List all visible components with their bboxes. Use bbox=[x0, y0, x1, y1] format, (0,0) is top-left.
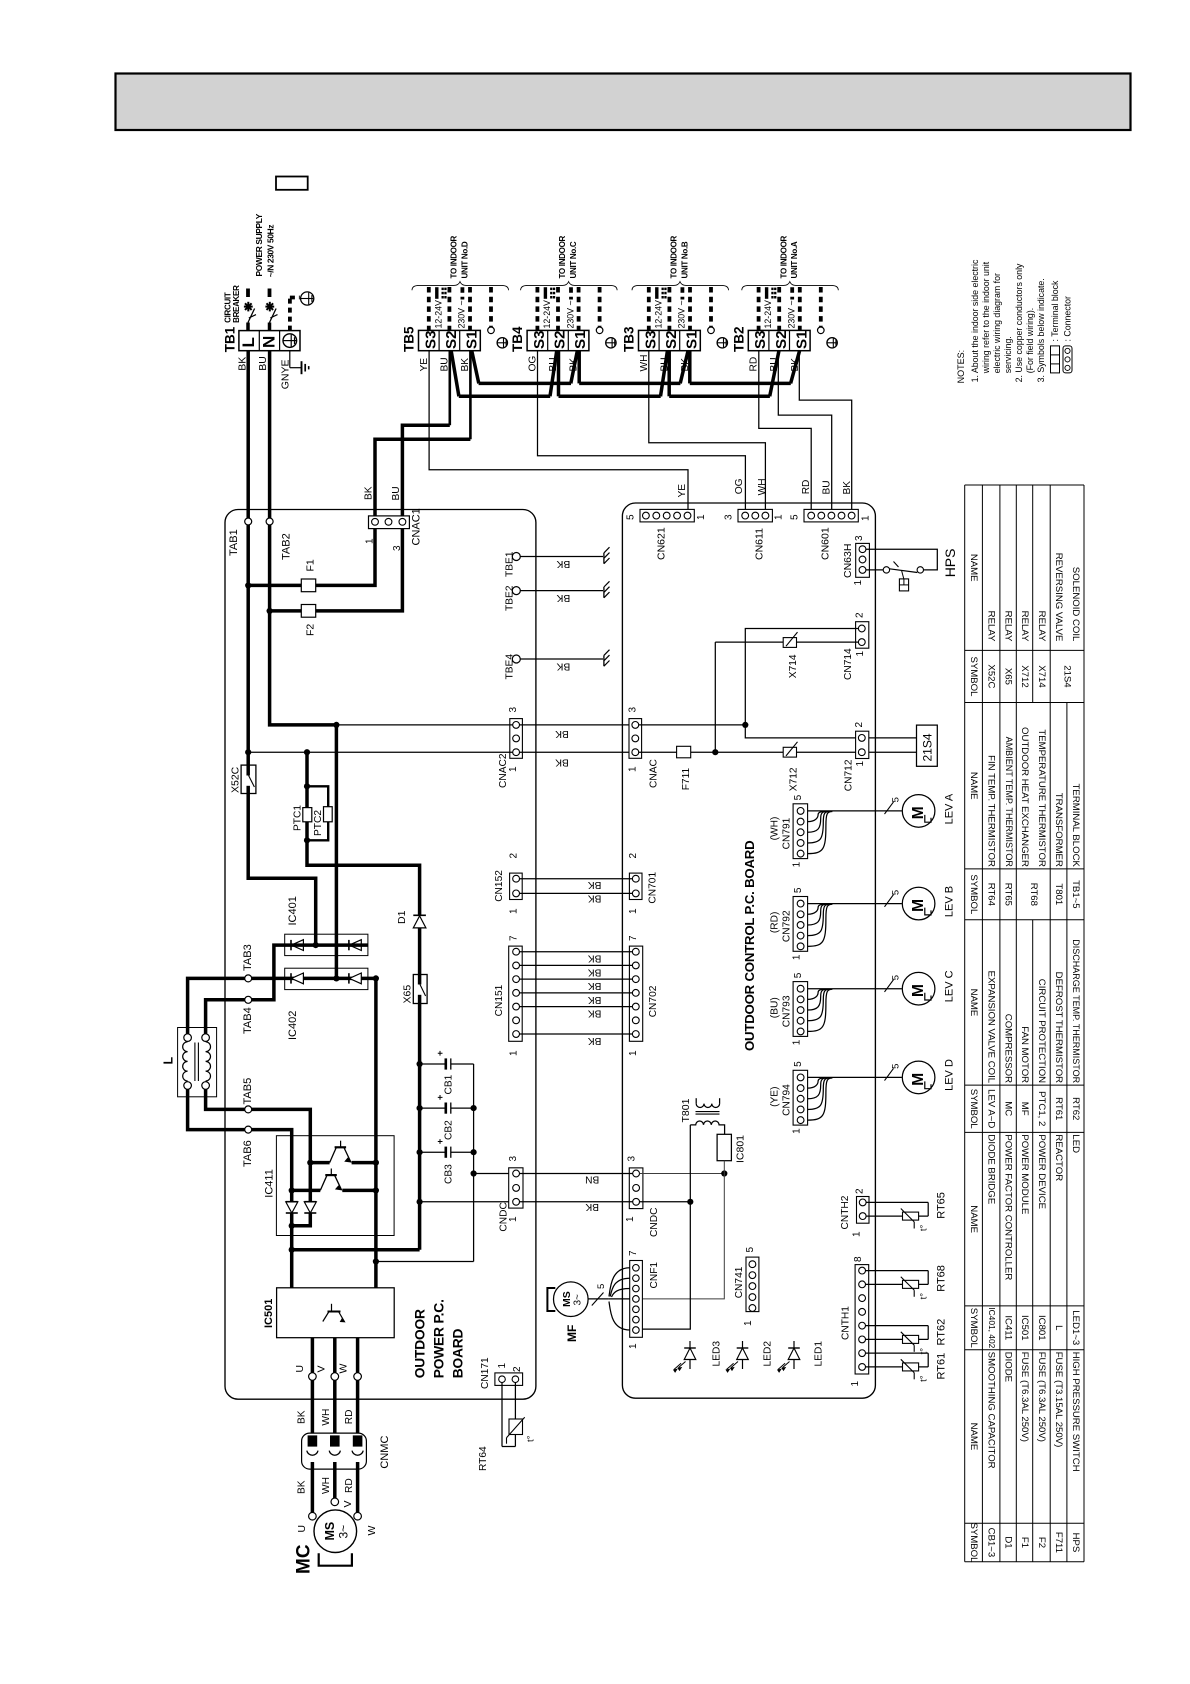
wire CN151-CN702 bbox=[520, 1006, 633, 1008]
svg-text:CN151: CN151 bbox=[494, 984, 505, 1016]
svg-text:BK: BK bbox=[556, 592, 570, 603]
svg-text:SYMBOL: SYMBOL bbox=[968, 1308, 979, 1349]
svg-text:7: 7 bbox=[628, 935, 639, 941]
svg-text:t°: t° bbox=[919, 1375, 930, 1382]
diode D1 bbox=[413, 916, 426, 928]
svg-text:POWER MODULE: POWER MODULE bbox=[1019, 1134, 1030, 1214]
wire to 21S4 bbox=[869, 737, 917, 739]
wire BU TB2.S2 to CN601 bbox=[778, 351, 831, 513]
wire YE TB5.S3 to CN621 bbox=[429, 351, 688, 513]
svg-text:S2: S2 bbox=[443, 330, 460, 349]
svg-text:FUSE (T6.3AL 250V): FUSE (T6.3AL 250V) bbox=[1036, 1352, 1047, 1442]
wire CNDC.1 net bbox=[640, 1201, 691, 1203]
svg-text:LED2: LED2 bbox=[763, 1341, 774, 1367]
svg-text:5: 5 bbox=[891, 975, 902, 980]
svg-text:NOTES:: NOTES: bbox=[956, 350, 966, 384]
TB2 brace bbox=[742, 282, 839, 291]
connector CN794 bbox=[793, 1070, 808, 1125]
connector CN611 bbox=[738, 509, 772, 522]
wire CN151-CN702 bbox=[520, 951, 633, 953]
TB3 12-24V pair mark bbox=[655, 287, 658, 299]
svg-text:LED3: LED3 bbox=[712, 1341, 723, 1367]
svg-text:S2: S2 bbox=[552, 330, 569, 349]
TB5 dashed field wiring bbox=[427, 287, 431, 330]
svg-text:POWER DEVICE: POWER DEVICE bbox=[1036, 1134, 1047, 1209]
svg-text:BK: BK bbox=[588, 879, 602, 890]
svg-text:UNIT No.D: UNIT No.D bbox=[460, 241, 469, 278]
svg-text:3: 3 bbox=[508, 707, 519, 713]
svg-text:1: 1 bbox=[774, 514, 785, 520]
svg-text:TO INDOOR: TO INDOOR bbox=[670, 235, 679, 278]
terminal U bbox=[309, 1373, 317, 1381]
MF 5-core slash bbox=[592, 1293, 604, 1306]
svg-text:2: 2 bbox=[628, 853, 639, 859]
TB5 brace bbox=[412, 282, 509, 291]
IC411 diode A bbox=[286, 1201, 298, 1203]
connector CN152 bbox=[510, 873, 523, 899]
svg-text:TO INDOOR: TO INDOOR bbox=[450, 235, 459, 278]
svg-text:CNDC: CNDC bbox=[499, 1202, 510, 1231]
wire W phase bbox=[356, 1338, 360, 1445]
svg-text:CN152: CN152 bbox=[494, 870, 505, 902]
svg-text:NAME: NAME bbox=[968, 1423, 979, 1451]
CN794 5-core slash bbox=[885, 1068, 894, 1080]
TB4 brace bbox=[521, 282, 618, 291]
junction bbox=[721, 1170, 727, 1176]
svg-text:SYMBOL: SYMBOL bbox=[968, 1089, 979, 1130]
wire V phase bbox=[333, 1338, 337, 1445]
PTC1 element bbox=[303, 808, 312, 822]
svg-text:230V ~: 230V ~ bbox=[677, 300, 687, 328]
svg-text:W: W bbox=[366, 1526, 378, 1536]
svg-text:1: 1 bbox=[855, 651, 866, 657]
junction bbox=[245, 749, 251, 755]
wire CN714.1 via X714 bbox=[715, 641, 858, 643]
svg-text:OUTDOOR: OUTDOOR bbox=[413, 1309, 428, 1378]
junction bbox=[313, 942, 319, 948]
TB5 12-24V pair mark bbox=[435, 287, 438, 299]
svg-text:CN702: CN702 bbox=[648, 985, 659, 1017]
svg-text:5: 5 bbox=[745, 1247, 756, 1253]
svg-text:BOARD: BOARD bbox=[451, 1328, 466, 1378]
wire CNAC1.3 to fuse F2 bbox=[270, 529, 403, 611]
terminal V bbox=[331, 1373, 339, 1381]
wire TAB5 row bbox=[206, 1089, 311, 1162]
power module IC501 bbox=[277, 1288, 395, 1338]
svg-text:5: 5 bbox=[626, 514, 637, 520]
svg-text:F711: F711 bbox=[1053, 1532, 1064, 1553]
wire CN714.2 bbox=[745, 629, 858, 738]
svg-text:RELAY: RELAY bbox=[1003, 611, 1014, 642]
svg-text:230V ~: 230V ~ bbox=[457, 300, 467, 328]
svg-text:S1: S1 bbox=[684, 330, 701, 349]
svg-text:RT68: RT68 bbox=[936, 1265, 948, 1292]
light emitting diode LED2 bbox=[742, 1341, 744, 1369]
svg-text:SYMBOL: SYMBOL bbox=[968, 656, 979, 697]
svg-text:BU: BU bbox=[257, 356, 269, 371]
expansion valve motor LEV D bbox=[902, 1061, 935, 1094]
svg-text:CN712: CN712 bbox=[844, 759, 855, 791]
wire S2 chain TB4-TB3 bbox=[559, 395, 661, 399]
svg-text:CNF1: CNF1 bbox=[649, 1262, 660, 1289]
thermistor RT61 bbox=[866, 1352, 929, 1354]
svg-text:IC411: IC411 bbox=[1003, 1315, 1014, 1340]
terminal block symbol bbox=[1051, 346, 1060, 373]
TB2 S1 drop bbox=[791, 351, 800, 383]
svg-text:5: 5 bbox=[793, 972, 804, 978]
svg-text:(RD): (RD) bbox=[770, 912, 781, 934]
svg-text:(For field wiring).: (For field wiring). bbox=[1025, 308, 1035, 374]
relay X712 contact bbox=[783, 747, 796, 757]
wire S1 chain TB5-TB4 bbox=[479, 382, 571, 386]
svg-text:5: 5 bbox=[793, 887, 804, 893]
svg-text:IC401, 402: IC401, 402 bbox=[987, 1307, 997, 1348]
svg-text:TB3: TB3 bbox=[622, 326, 637, 352]
legend box bbox=[276, 177, 308, 190]
light emitting diode LED3 bbox=[689, 1341, 691, 1369]
wire S1 chain TB4-TB3 bbox=[579, 382, 680, 386]
svg-text:REACTOR: REACTOR bbox=[1053, 1134, 1064, 1181]
svg-text:1: 1 bbox=[625, 1216, 636, 1222]
svg-text:N: N bbox=[260, 336, 279, 348]
svg-text:OUTDOOR HEAT EXCHANGER: OUTDOOR HEAT EXCHANGER bbox=[1019, 727, 1030, 867]
svg-text:TBE4: TBE4 bbox=[505, 654, 516, 680]
wire Q1 leg bbox=[309, 1163, 313, 1202]
wire N trunk bbox=[268, 351, 272, 611]
svg-text:3~: 3~ bbox=[337, 1525, 351, 1539]
svg-text:IC401: IC401 bbox=[287, 896, 299, 925]
svg-text:U: U bbox=[294, 1365, 306, 1373]
TBE1 chassis ground bbox=[603, 553, 605, 564]
wire PTC to D1 trunk bbox=[307, 840, 420, 915]
svg-text:BK: BK bbox=[588, 1035, 602, 1046]
svg-text:+: + bbox=[435, 1138, 446, 1144]
CN791 harness bbox=[808, 810, 902, 812]
svg-text:L: L bbox=[239, 337, 258, 347]
TB3 earth symbol bbox=[717, 338, 727, 348]
svg-text:UNIT No.C: UNIT No.C bbox=[569, 241, 578, 278]
svg-text:3: 3 bbox=[854, 535, 865, 541]
terminal W bbox=[354, 1373, 362, 1381]
outdoor power pc board outline bbox=[225, 510, 536, 1400]
IC501 transistor symbol bbox=[328, 1311, 341, 1313]
svg-text:RD: RD bbox=[344, 1478, 355, 1493]
svg-text:BK: BK bbox=[588, 1007, 602, 1018]
svg-text:1: 1 bbox=[497, 1363, 508, 1369]
svg-text:REVERSING VALVE: REVERSING VALVE bbox=[1053, 553, 1064, 642]
title bar bbox=[116, 74, 1131, 131]
svg-text:V: V bbox=[316, 1365, 328, 1372]
connector CN601 bbox=[804, 509, 858, 522]
svg-text:LEV C: LEV C bbox=[944, 970, 956, 1002]
svg-text:12-24V: 12-24V bbox=[542, 300, 552, 328]
wire U phase bbox=[311, 1338, 315, 1445]
svg-text:1. About the indoor side elect: 1. About the indoor side electric bbox=[970, 259, 980, 382]
TB3 S1 taps bbox=[680, 351, 688, 383]
svg-text:3: 3 bbox=[724, 514, 735, 520]
svg-text:W: W bbox=[338, 1364, 350, 1374]
svg-text:L: L bbox=[162, 1057, 176, 1065]
svg-text:PTC2: PTC2 bbox=[313, 810, 324, 836]
svg-text:2: 2 bbox=[512, 1366, 523, 1372]
svg-text:t°: t° bbox=[919, 1293, 930, 1300]
capacitor CB2 bbox=[417, 1105, 423, 1111]
svg-text:3. Symbols below indicate.: 3. Symbols below indicate. bbox=[1036, 278, 1046, 382]
svg-text:WH: WH bbox=[321, 1477, 332, 1494]
connector CN792 bbox=[793, 897, 808, 952]
MC bracket bbox=[319, 1553, 352, 1566]
svg-text:LED1~3: LED1~3 bbox=[1070, 1310, 1081, 1345]
svg-text:CNAC: CNAC bbox=[649, 759, 660, 788]
junction bbox=[742, 722, 748, 728]
reactor L bbox=[178, 1028, 217, 1097]
svg-text:RT61: RT61 bbox=[1053, 1097, 1064, 1120]
svg-text:UNIT No.A: UNIT No.A bbox=[790, 241, 799, 278]
wire CNAC1.1 to fuse F1 bbox=[248, 529, 375, 586]
svg-text:TERMINAL BLOCK: TERMINAL BLOCK bbox=[1070, 784, 1081, 868]
transistor Q2 bbox=[292, 1189, 321, 1193]
svg-text:RT62: RT62 bbox=[936, 1319, 948, 1346]
wire to CNF1.4 bbox=[639, 1174, 724, 1299]
transistor Q1 bbox=[310, 1161, 329, 1165]
svg-text:MC: MC bbox=[294, 1544, 315, 1574]
svg-text:BK: BK bbox=[588, 980, 602, 991]
svg-text:TO INDOOR: TO INDOOR bbox=[779, 235, 788, 278]
svg-text:21S4: 21S4 bbox=[1062, 665, 1073, 688]
relay X52C contact bbox=[246, 752, 250, 775]
svg-text:PTC1: PTC1 bbox=[293, 805, 304, 831]
outdoor control pc board outline bbox=[622, 503, 875, 1398]
diode bridge IC402 bbox=[285, 968, 368, 989]
svg-text:wiring refer to the indoor uni: wiring refer to the indoor unit bbox=[981, 261, 991, 374]
wire CN151-CN702 bbox=[520, 964, 633, 966]
svg-text:BK: BK bbox=[297, 1480, 308, 1494]
compressor motor MC bbox=[314, 1510, 357, 1553]
svg-text:1: 1 bbox=[855, 761, 866, 767]
svg-text:+: + bbox=[435, 1050, 446, 1056]
svg-text:IC801: IC801 bbox=[1036, 1315, 1047, 1341]
svg-text:S3: S3 bbox=[531, 330, 548, 349]
svg-text:CNTH2: CNTH2 bbox=[840, 1195, 851, 1229]
TB2 S2 drop bbox=[770, 351, 779, 396]
svg-text:DEFROST THERMISTOR: DEFROST THERMISTOR bbox=[1053, 972, 1064, 1083]
wire Q2 leg bbox=[290, 1190, 294, 1201]
light emitting diode LED1 bbox=[793, 1341, 795, 1369]
svg-text:RELAY: RELAY bbox=[986, 611, 997, 642]
wire between boards bbox=[520, 724, 632, 726]
svg-text:CN794: CN794 bbox=[782, 1084, 793, 1116]
connector CNAC2 bbox=[510, 719, 523, 759]
power device IC801 bbox=[717, 1134, 731, 1160]
connector CN791 bbox=[793, 804, 808, 859]
fuse F1 bbox=[301, 579, 315, 592]
svg-text:CN611: CN611 bbox=[754, 528, 766, 560]
junction bbox=[333, 975, 339, 981]
svg-text:SYMBOL: SYMBOL bbox=[968, 1522, 979, 1563]
svg-text:D1: D1 bbox=[396, 910, 408, 924]
svg-text:TAB5: TAB5 bbox=[242, 1078, 254, 1105]
svg-text:X712: X712 bbox=[1019, 665, 1030, 687]
wire TAB4 to IC401 bbox=[206, 945, 289, 1034]
svg-text:1: 1 bbox=[852, 1231, 863, 1237]
svg-text:MS: MS bbox=[561, 1291, 573, 1307]
terminal TBE1 bbox=[512, 553, 520, 561]
svg-text:DIODE BRIDGE: DIODE BRIDGE bbox=[986, 1134, 997, 1204]
svg-text:5: 5 bbox=[891, 797, 902, 802]
connector CNAC control side bbox=[629, 719, 642, 759]
svg-text:3: 3 bbox=[627, 1156, 638, 1162]
wire CB return bus bbox=[473, 1064, 475, 1262]
connector CNTH1 bbox=[855, 1265, 869, 1374]
svg-text:BK: BK bbox=[588, 892, 602, 903]
svg-text:CB3: CB3 bbox=[444, 1164, 455, 1184]
TB2 earth pigtail bbox=[818, 327, 825, 334]
wire BK trunk to CNAC2 bbox=[246, 585, 250, 752]
connector CN714 bbox=[856, 622, 869, 649]
svg-text:CNDC: CNDC bbox=[649, 1208, 660, 1237]
svg-text:TEMPERATURE THERMISTOR: TEMPERATURE THERMISTOR bbox=[1036, 729, 1047, 867]
thermistor RT68 bbox=[866, 1270, 929, 1272]
svg-text:t°: t° bbox=[919, 1224, 930, 1231]
svg-text:BU: BU bbox=[822, 480, 833, 494]
svg-text:TRANSFORMER: TRANSFORMER bbox=[1053, 793, 1064, 867]
svg-text:OUTDOOR CONTROL P.C. BOARD: OUTDOOR CONTROL P.C. BOARD bbox=[742, 841, 757, 1051]
svg-text:RD: RD bbox=[801, 480, 812, 495]
terminal TBE4 bbox=[512, 655, 520, 663]
svg-text:IC501: IC501 bbox=[263, 1299, 275, 1328]
fuse F711 bbox=[677, 746, 691, 758]
svg-text:F1: F1 bbox=[305, 559, 317, 571]
terminal TAB3 bbox=[245, 975, 252, 982]
svg-text:BK: BK bbox=[842, 481, 853, 495]
svg-text:FUSE (T6.3AL 250V): FUSE (T6.3AL 250V) bbox=[1019, 1352, 1030, 1442]
svg-text:YE: YE bbox=[419, 358, 430, 372]
svg-text:POWER FACTOR CONTROLLER: POWER FACTOR CONTROLLER bbox=[1003, 1134, 1014, 1280]
svg-text:12-24V: 12-24V bbox=[433, 300, 443, 328]
svg-text:RELAY: RELAY bbox=[1019, 611, 1030, 642]
CN794 harness bbox=[808, 1076, 902, 1078]
wire CNAC.3 bbox=[639, 724, 746, 726]
svg-text:BREAKER: BREAKER bbox=[232, 285, 241, 323]
CN791 5-core slash bbox=[885, 802, 894, 814]
PTC2 element bbox=[324, 807, 333, 822]
svg-text:CN601: CN601 bbox=[820, 527, 832, 560]
TB4 12-24V pair mark bbox=[544, 287, 547, 299]
wire TAB3 row bbox=[188, 978, 376, 1034]
component table bbox=[965, 1561, 1084, 1563]
thermistor RT64 bbox=[501, 1383, 503, 1447]
svg-text:CNAC2: CNAC2 bbox=[498, 753, 509, 788]
junction bbox=[267, 608, 273, 614]
wire CN152-CN701 bbox=[520, 878, 633, 880]
svg-text:12-24V: 12-24V bbox=[653, 300, 663, 328]
expansion valve motor LEV A bbox=[902, 795, 935, 828]
protective earth symbol bbox=[301, 292, 314, 305]
MF harness bbox=[588, 1298, 608, 1300]
svg-text:5: 5 bbox=[891, 890, 902, 895]
svg-text:AMBIENT TEMP. THERMISTOR: AMBIENT TEMP. THERMISTOR bbox=[1004, 737, 1014, 868]
svg-text:1: 1 bbox=[850, 1381, 861, 1387]
svg-text:LEV D: LEV D bbox=[944, 1059, 956, 1091]
wire BU CNAC1 to TB5.S2 bbox=[402, 425, 449, 522]
TB4 dashed field wiring bbox=[536, 287, 540, 330]
svg-text:F1: F1 bbox=[1019, 1537, 1030, 1548]
svg-text:T801: T801 bbox=[1053, 883, 1064, 905]
connector CN702 bbox=[629, 946, 642, 1041]
svg-text:L: L bbox=[1053, 1325, 1064, 1331]
svg-text:2: 2 bbox=[855, 612, 866, 618]
TB5 230V dash mark bbox=[460, 287, 464, 299]
TB4 S2 taps bbox=[550, 351, 557, 396]
connector CNTH2 bbox=[857, 1197, 870, 1224]
svg-text:X52C: X52C bbox=[986, 664, 997, 688]
svg-text:1: 1 bbox=[628, 766, 639, 772]
fuse F2 bbox=[301, 605, 315, 618]
svg-text:TAB1: TAB1 bbox=[228, 529, 240, 556]
svg-text:OG: OG bbox=[527, 356, 538, 372]
wire BK CNAC1 to TB5.S1 bbox=[375, 439, 470, 522]
connector CN171 bbox=[495, 1373, 523, 1386]
svg-text:CB1~3: CB1~3 bbox=[986, 1528, 997, 1558]
wire CNAC.1 via F711 X712 bbox=[639, 751, 859, 753]
svg-text:RD: RD bbox=[749, 357, 760, 372]
svg-text:FAN MOTOR: FAN MOTOR bbox=[1019, 1026, 1030, 1083]
terminal TAB1 bbox=[245, 518, 252, 525]
svg-text:BK: BK bbox=[588, 953, 602, 964]
svg-text:2: 2 bbox=[508, 853, 519, 859]
wire X52C to IC401 bbox=[248, 794, 316, 946]
earth wire from TB1 bbox=[289, 351, 291, 368]
IC402 diodes bbox=[290, 973, 292, 983]
wire X65 to CB bank bbox=[418, 1004, 422, 1250]
svg-text:S1: S1 bbox=[793, 330, 810, 349]
svg-text:S3: S3 bbox=[422, 330, 439, 349]
svg-text:WH: WH bbox=[639, 355, 650, 372]
connector CNF1 bbox=[630, 1261, 643, 1338]
PTC2 loop bbox=[307, 786, 328, 807]
TB3 brace bbox=[632, 282, 729, 291]
wire X714 drop bbox=[714, 642, 716, 752]
svg-text:YE: YE bbox=[677, 484, 688, 498]
TB4 earth pigtail bbox=[596, 327, 603, 334]
wire MC W bbox=[356, 1462, 360, 1513]
wire through IC401 bbox=[289, 943, 368, 947]
wire BU trunk bbox=[270, 611, 337, 725]
TB2 230V dash mark bbox=[790, 287, 794, 299]
IC411 diode B bbox=[304, 1201, 316, 1203]
svg-text:CN63H: CN63H bbox=[842, 544, 854, 578]
svg-text:TBE2: TBE2 bbox=[505, 585, 516, 611]
svg-text:NAME: NAME bbox=[968, 989, 979, 1017]
svg-text:1: 1 bbox=[792, 861, 803, 867]
svg-text:RT65: RT65 bbox=[936, 1192, 948, 1219]
svg-text:S2: S2 bbox=[773, 330, 790, 349]
svg-text:3: 3 bbox=[628, 707, 639, 713]
svg-text:EXPANSION VALVE COIL: EXPANSION VALVE COIL bbox=[986, 971, 997, 1084]
svg-text:F2: F2 bbox=[1036, 1537, 1047, 1548]
svg-text:230V ~: 230V ~ bbox=[787, 300, 797, 328]
svg-text:1: 1 bbox=[792, 1128, 803, 1134]
svg-text:(WH): (WH) bbox=[770, 817, 781, 841]
TB3 S2 taps bbox=[661, 351, 668, 396]
svg-text:TB4: TB4 bbox=[510, 326, 525, 352]
svg-text:X714: X714 bbox=[1036, 665, 1047, 688]
TB5 S1 drop bbox=[469, 351, 472, 440]
svg-text:S3: S3 bbox=[642, 330, 659, 349]
svg-text:MC: MC bbox=[1003, 1101, 1014, 1116]
wire BK TB2.S1 to CN601 bbox=[799, 351, 851, 513]
connector CNMC bbox=[302, 1433, 367, 1469]
